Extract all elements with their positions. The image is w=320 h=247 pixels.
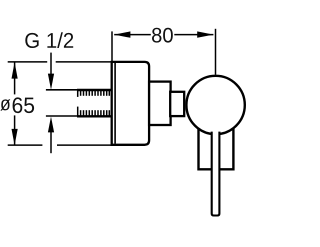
wall flange body (ø65 disc, side view) xyxy=(112,62,149,145)
extension line ø65 top xyxy=(8,61,112,63)
dimension line ø65 lower segment xyxy=(14,115,16,145)
handle knob circle xyxy=(186,76,244,134)
thread teeth bottom band xyxy=(78,107,110,116)
thread crest top line xyxy=(77,89,112,91)
leader G1/2 upper xyxy=(50,53,52,76)
flange face joint line xyxy=(114,63,116,144)
thread teeth top band xyxy=(78,90,110,97)
extension line right (handle axis) down to knob xyxy=(215,29,217,75)
connector hub xyxy=(170,92,184,116)
arrowhead ø65 down xyxy=(12,129,18,145)
handle yoke xyxy=(197,128,234,169)
arrowhead 80 left xyxy=(114,31,130,37)
supply pipe shank bottom line xyxy=(46,115,79,117)
supply pipe shank top line xyxy=(46,89,79,91)
label 80 xyxy=(152,28,173,43)
dimension line 80 left segment xyxy=(114,34,151,36)
thread crest bottom line xyxy=(77,115,112,117)
arrowhead G1/2 up onto thread xyxy=(48,117,54,133)
label G 1/2 xyxy=(25,32,73,48)
extension line ø65 bottom xyxy=(8,144,112,146)
extension line left (wall plane) xyxy=(111,31,113,61)
arrowhead 80 right xyxy=(197,31,213,37)
dimension line ø65 upper segment xyxy=(14,63,16,95)
label ø65 xyxy=(0,99,10,110)
arrowhead G1/2 down onto thread xyxy=(48,74,54,90)
dimension line 80 right segment xyxy=(174,34,213,36)
leader G1/2 lower xyxy=(50,131,52,153)
lever handle bar xyxy=(212,132,220,216)
arrowhead ø65 up xyxy=(12,62,18,78)
cartridge housing block xyxy=(149,82,171,125)
